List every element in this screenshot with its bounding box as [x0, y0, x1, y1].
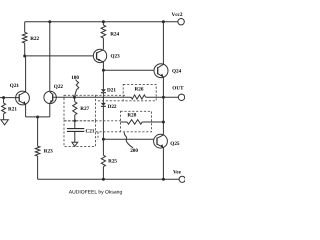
svg-text:R26: R26 — [135, 86, 144, 92]
svg-text:OUT: OUT — [172, 86, 184, 92]
svg-text:100: 100 — [71, 75, 79, 81]
svg-text:R28: R28 — [127, 113, 136, 119]
svg-text:AUDIOFEEL by Oksang: AUDIOFEEL by Oksang — [69, 189, 123, 195]
svg-text:R21: R21 — [8, 106, 17, 112]
svg-text:Q25: Q25 — [170, 141, 180, 147]
svg-text:R24: R24 — [110, 31, 119, 37]
svg-text:R25: R25 — [108, 159, 117, 165]
svg-text:200: 200 — [130, 148, 138, 154]
svg-text:R22: R22 — [30, 36, 39, 42]
svg-text:R23: R23 — [44, 149, 53, 155]
svg-text:Vee: Vee — [173, 169, 182, 175]
svg-text:Vcc2: Vcc2 — [172, 12, 183, 18]
svg-text:Q22: Q22 — [54, 84, 64, 90]
svg-text:Q21: Q21 — [10, 83, 20, 89]
svg-text:C21: C21 — [86, 129, 95, 135]
svg-text:D21: D21 — [107, 88, 116, 94]
svg-text:Q24: Q24 — [172, 68, 182, 74]
svg-text:D22: D22 — [108, 104, 117, 110]
svg-text:R27: R27 — [80, 106, 89, 112]
svg-text:Q23: Q23 — [111, 54, 121, 60]
